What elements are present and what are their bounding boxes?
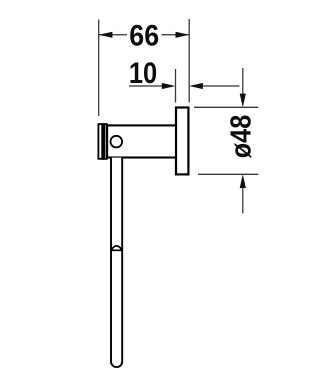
end cap black band [101, 123, 105, 160]
dim 10 arrowhead pointing left [189, 83, 203, 89]
dim 66 dimension line [99, 34, 189, 36]
dim 10 extension line left [175, 69, 177, 103]
screw hole [111, 136, 123, 148]
dim 66/10 shared extension line right [188, 19, 190, 103]
dim 48 bottom extension line [198, 173, 258, 175]
svg-text:ø48: ø48 [225, 115, 257, 159]
dim 48 bottom arrow shaft [242, 187, 244, 214]
dim 10 dimension line left part [129, 85, 163, 87]
dim 10 dimension line right part [202, 85, 240, 87]
dim 48 top extension line [194, 106, 258, 108]
end cap outline [98, 124, 107, 159]
dim 66 arrowhead left [99, 32, 113, 38]
hanging bar [111, 158, 122, 368]
dim 66 arrowhead right [176, 32, 190, 38]
svg-text:10: 10 [129, 57, 157, 90]
bar joint dome [111, 246, 122, 250]
svg-text:66: 66 [129, 19, 159, 52]
dim 48 arrowhead pointing up [240, 174, 246, 188]
dim 48 top arrow shaft [242, 68, 244, 95]
holder arm body [107, 125, 176, 157]
dim 66 extension line left [98, 20, 100, 117]
wall plate [176, 108, 188, 175]
dim 48 arrowhead pointing down [240, 94, 246, 108]
bar joint line [111, 249, 122, 251]
dim 10 arrowhead pointing right [162, 83, 176, 89]
